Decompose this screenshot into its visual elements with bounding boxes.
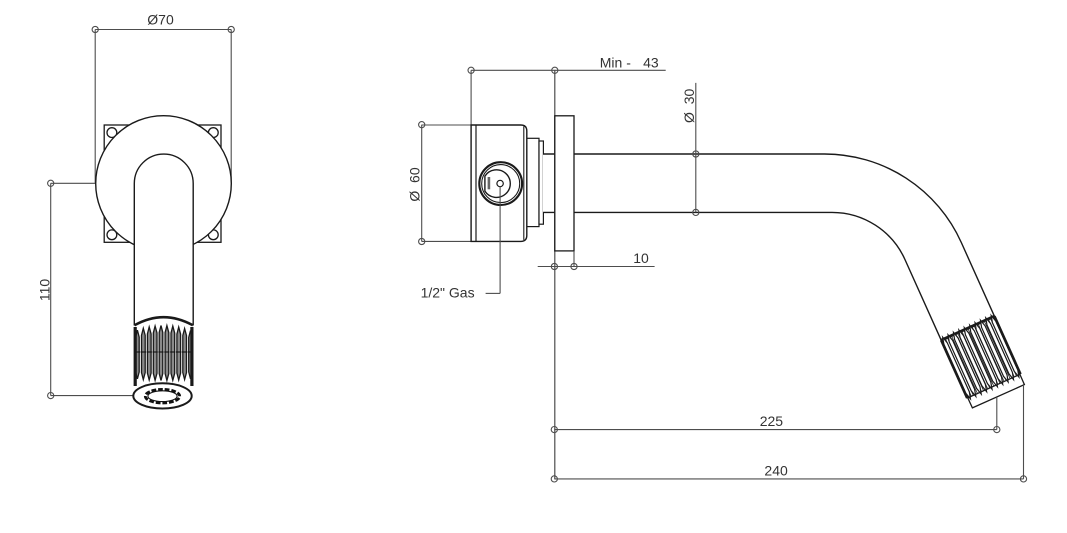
svg-text:Ø 30: Ø 30 <box>681 88 697 122</box>
svg-text:110: 110 <box>36 279 52 302</box>
svg-text:Ø70: Ø70 <box>147 11 174 27</box>
svg-text:240: 240 <box>764 463 788 479</box>
svg-text:1/2" Gas: 1/2" Gas <box>421 285 475 301</box>
svg-text:10: 10 <box>633 250 649 266</box>
svg-text:43: 43 <box>643 54 659 70</box>
svg-text:Min -: Min - <box>600 54 631 70</box>
svg-text:225: 225 <box>760 413 784 429</box>
svg-text:Ø 60: Ø 60 <box>407 167 423 201</box>
